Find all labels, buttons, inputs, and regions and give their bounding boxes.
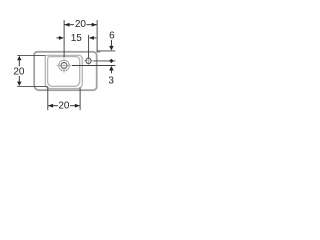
dim bottom-20 right extension (79, 88, 81, 111)
shared point diamond (109, 59, 113, 63)
dim bottom-20 right arrowhead (75, 104, 80, 108)
svg-text:3: 3 (108, 75, 114, 86)
tap hole circle (86, 58, 91, 63)
drain axis extension line right (72, 65, 115, 67)
drain crosshair (57, 65, 72, 67)
dim top-20 line left segment (64, 24, 74, 26)
tap axis extension line right (93, 60, 115, 62)
dim top-20 right extension (rim right edge axis) (96, 20, 98, 52)
dim left-20 top extension (17, 54, 45, 56)
dim top-20 right arrowhead (92, 23, 97, 27)
svg-text:20: 20 (58, 100, 70, 111)
tap hole crosshair (84, 60, 93, 62)
dim left-20 down arrowhead (17, 82, 21, 87)
basin outer rim (34, 52, 96, 90)
svg-text:20: 20 (75, 19, 87, 30)
dim left-20 upper stem (18, 60, 20, 66)
drain outer circle (59, 60, 70, 71)
svg-text:20: 20 (13, 67, 25, 78)
rim top edge extension line right (97, 50, 115, 52)
dim 6 down arrowhead (109, 46, 114, 51)
dim bottom-20 line right segment (70, 105, 80, 107)
svg-text:15: 15 (71, 33, 83, 44)
dim top-20 left extension (drain axis) (63, 20, 65, 57)
dim left-20 bottom extension (17, 85, 47, 87)
dim 3 stem (110, 70, 112, 73)
dim left-20 up arrowhead (17, 56, 21, 61)
dim 15 right stub (93, 37, 96, 39)
drain inner circle (61, 63, 67, 69)
rim top edge overshoot stub (97, 51, 101, 53)
dim 15 right arrowhead (89, 36, 94, 40)
dim left-20 lower stem (18, 76, 20, 82)
dim 15 left arrowhead (59, 36, 64, 40)
dim bottom-20 left extension (47, 87, 49, 110)
dim bottom-20 line left segment (48, 105, 58, 107)
dim 15 right extension (tap axis) (88, 35, 90, 58)
dim top-20 left arrowhead (64, 23, 69, 27)
dim 15 left stub (56, 37, 59, 39)
dim bottom-20 left arrowhead (48, 104, 53, 108)
dim 6 stem (110, 40, 112, 47)
svg-text:6: 6 (109, 30, 115, 41)
dim 3 up arrowhead (109, 66, 114, 71)
bowl opening outline (45, 55, 82, 88)
bowl bottom outline (48, 57, 80, 87)
dim top-20 line right segment (86, 24, 97, 26)
